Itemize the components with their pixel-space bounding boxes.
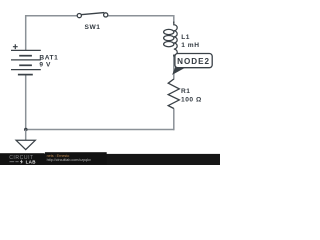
switch SW1 terminal circle left (77, 14, 81, 18)
switch SW1 lever (81, 13, 105, 15)
node NODE2 flag tail (173, 67, 184, 75)
svg-text:1 mH: 1 mH (181, 42, 199, 49)
battery BAT1 plates (11, 50, 41, 74)
watermark logo box (0, 153, 45, 165)
wire left vertical (battery top lead) (25, 15, 27, 50)
watermark bottom bar (0, 154, 220, 165)
ground stub wire (25, 130, 27, 141)
wire right top (corner to inductor) (173, 15, 175, 23)
svg-text:http://circuitlab.com/czpqkv: http://circuitlab.com/czpqkv (47, 158, 91, 162)
switch SW1 terminal circle right (104, 13, 108, 17)
svg-text:LAB: LAB (26, 160, 37, 165)
wire switch to top-right corner (106, 15, 173, 17)
watermark logo bolt (20, 159, 23, 164)
node NODE2 box (175, 54, 212, 68)
junction dot bottom-left (24, 128, 28, 132)
battery BAT1 plus sign (13, 44, 18, 49)
watermark logo wave marks (10, 161, 19, 163)
svg-text:R1: R1 (181, 88, 191, 95)
ground symbol triangle (16, 140, 35, 149)
svg-text:nets : Ernesto: nets : Ernesto (47, 154, 70, 158)
svg-text:L1: L1 (181, 34, 190, 41)
svg-text:SW1: SW1 (85, 24, 101, 31)
svg-text:100 Ω: 100 Ω (181, 97, 202, 104)
wire battery bottom lead down to junction (25, 75, 27, 130)
svg-text:NODE2: NODE2 (177, 57, 210, 66)
wire right vertical lower (resistor bottom lead) (173, 108, 175, 130)
resistor R1 zigzag (168, 79, 179, 109)
watermark info box (45, 152, 107, 164)
svg-text:9 V: 9 V (39, 62, 51, 69)
inductor L1 coil (164, 22, 178, 57)
wire top-left to switch (26, 15, 79, 17)
wire right middle (inductor to resistor, node2 net) (173, 55, 175, 80)
wire bottom (26, 129, 175, 131)
